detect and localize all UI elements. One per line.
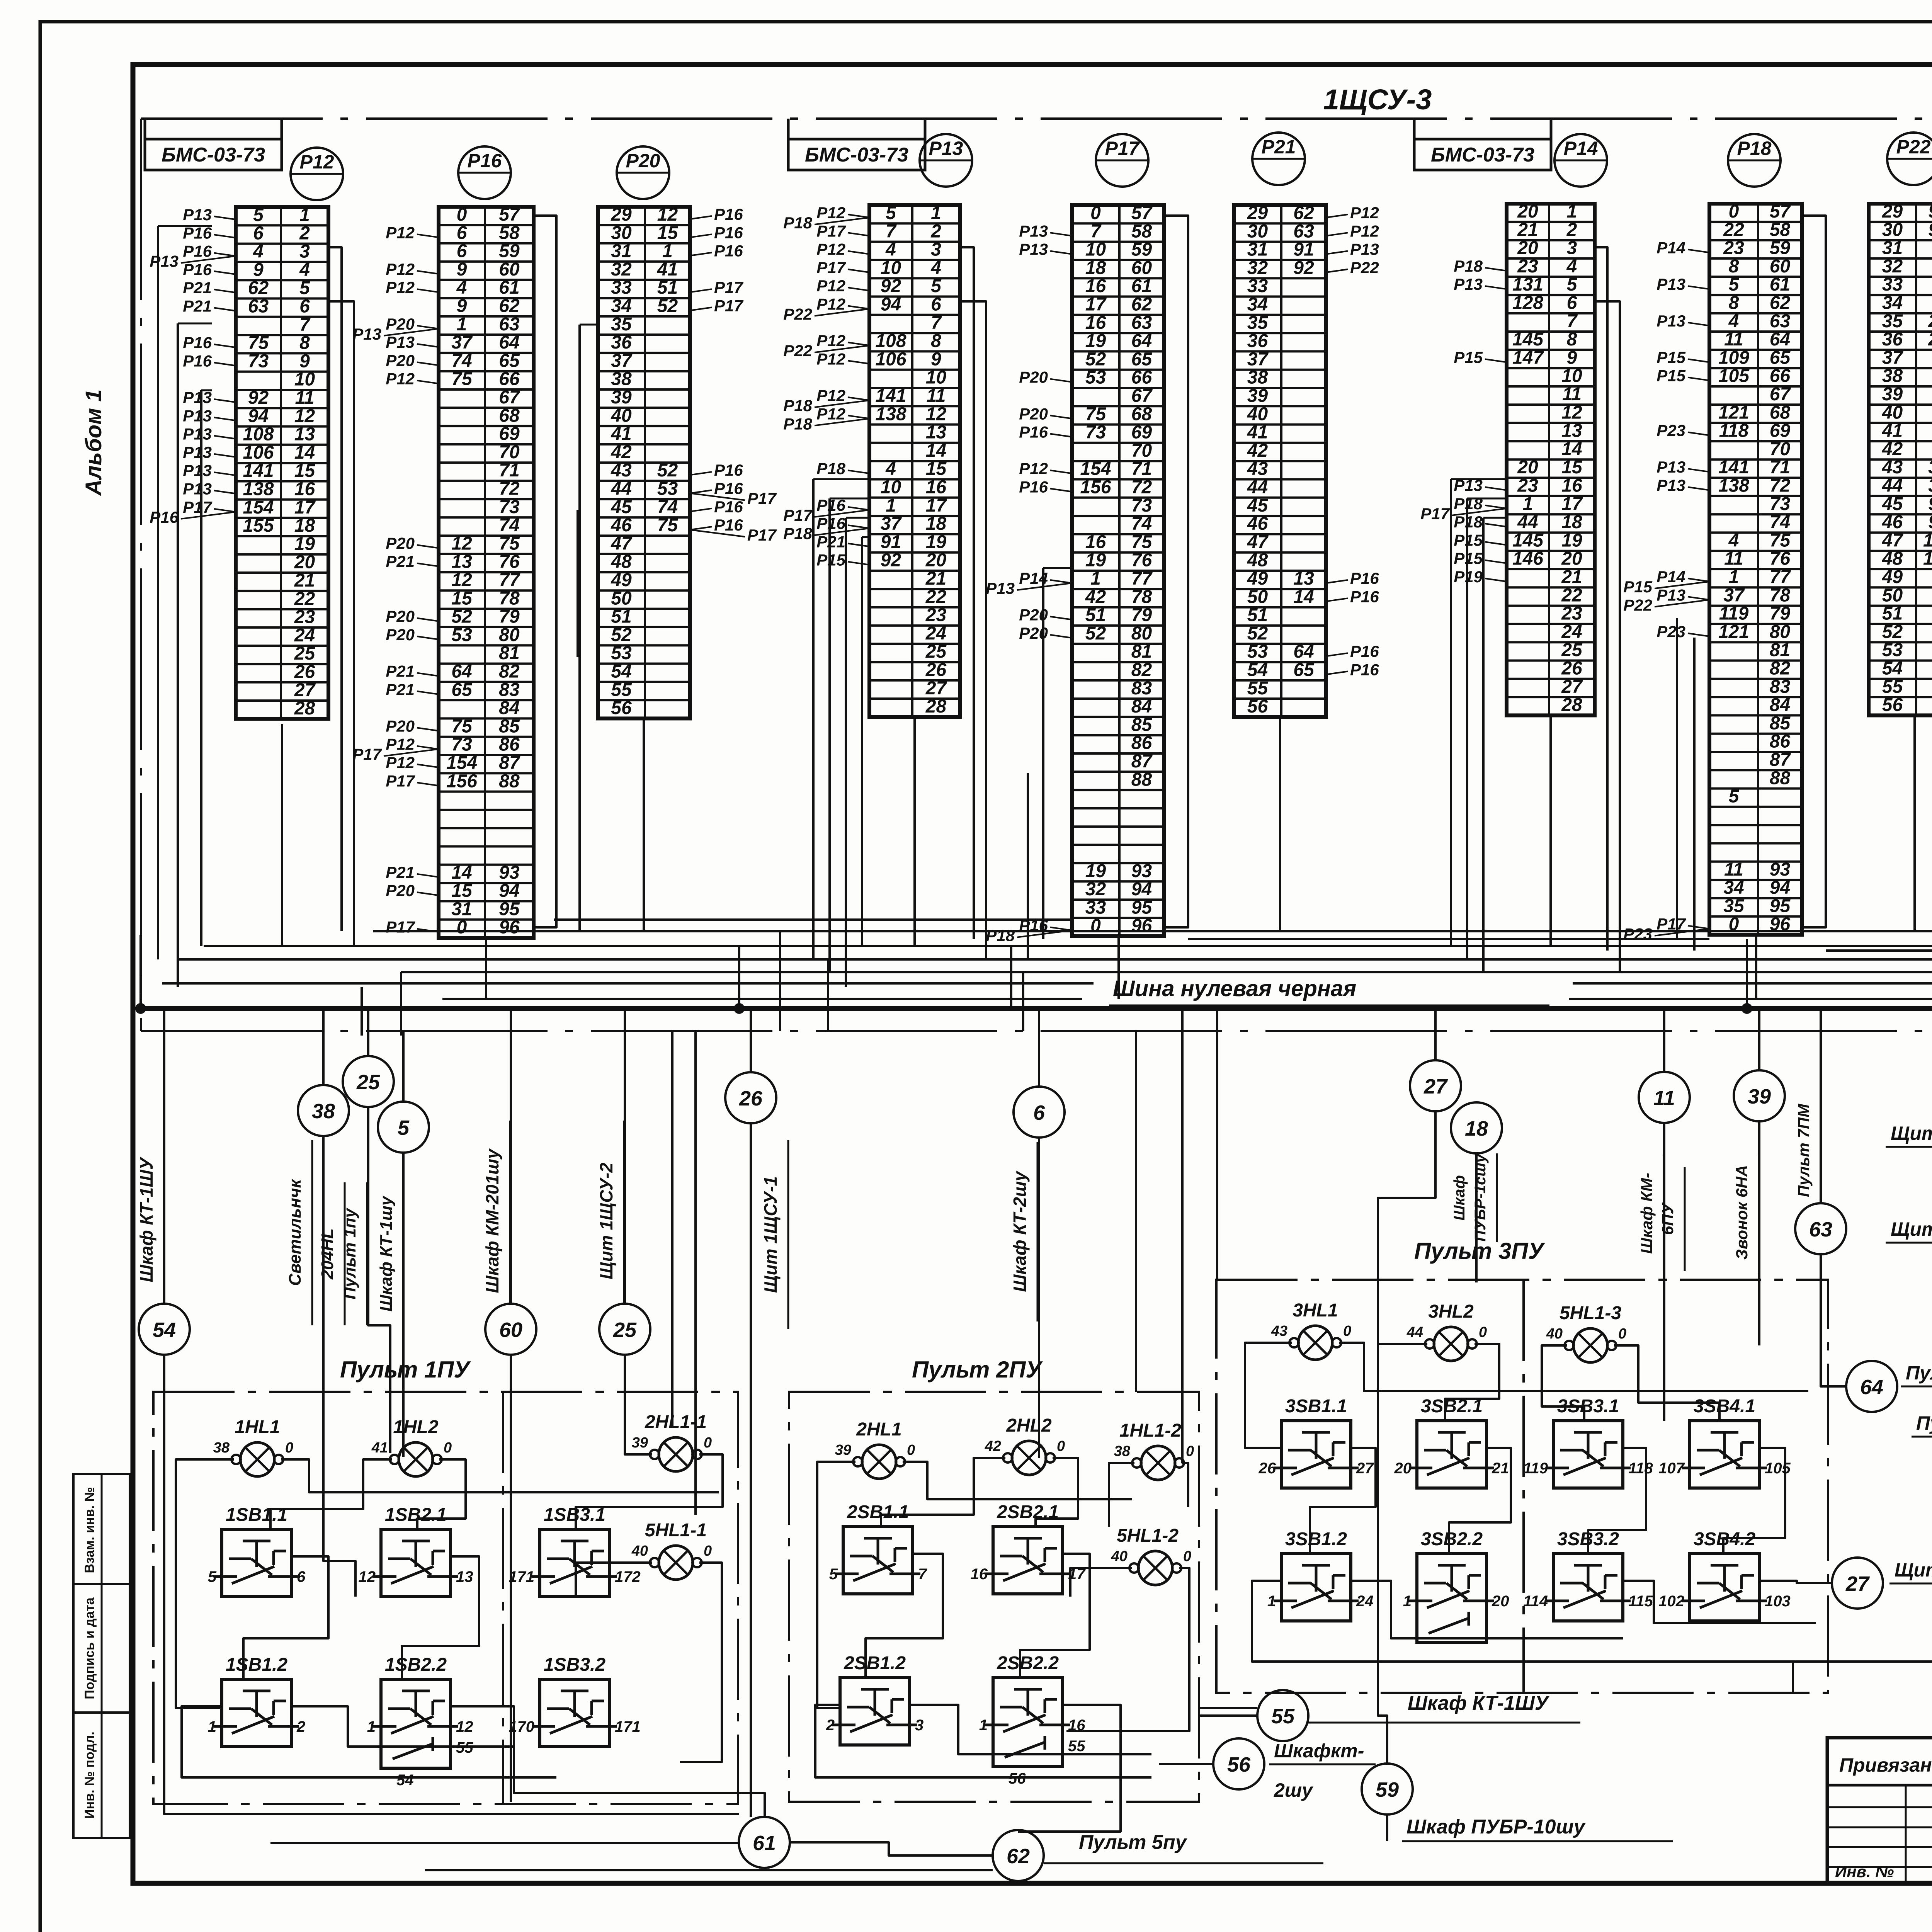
svg-text:3: 3 [1567,238,1577,259]
svg-text:18: 18 [926,514,947,534]
svg-text:54: 54 [396,1772,414,1789]
svg-text:29: 29 [1247,203,1268,223]
svg-text:1ЩСУ-3: 1ЩСУ-3 [1323,83,1432,116]
svg-text:2: 2 [930,221,941,241]
svg-text:7: 7 [931,313,942,333]
svg-text:P17: P17 [816,259,846,277]
svg-text:2: 2 [826,1717,835,1734]
svg-text:64: 64 [1770,329,1790,350]
svg-text:25: 25 [356,1071,380,1094]
svg-text:114: 114 [1523,1593,1548,1610]
svg-text:58: 58 [1770,219,1791,240]
svg-text:70: 70 [1131,440,1152,461]
wire [182,1706,556,1777]
wire [828,498,831,972]
svg-text:6: 6 [457,241,467,262]
wire [1746,939,1748,1009]
wire [830,498,869,500]
svg-text:22: 22 [1723,219,1744,240]
svg-text:6: 6 [1033,1101,1045,1124]
svg-text:66: 66 [1131,367,1152,388]
wire [1802,216,1826,927]
svg-text:94: 94 [248,406,269,426]
svg-text:24: 24 [1561,622,1582,642]
wire [1339,1343,1808,1391]
svg-text:39: 39 [1928,476,1932,496]
wire [417,1459,466,1529]
svg-text:1: 1 [367,1718,376,1735]
svg-text:1SB1.1: 1SB1.1 [226,1505,287,1525]
label Шкаф КМ- [1638,1155,1664,1271]
wire [1378,1343,1427,1345]
svg-text:26: 26 [739,1087,763,1110]
svg-text:63: 63 [248,296,269,317]
svg-text:0: 0 [1729,201,1739,222]
wire [361,987,363,1036]
svg-text:88: 88 [499,771,520,791]
svg-text:26: 26 [294,662,315,682]
svg-text:P12: P12 [816,295,845,313]
wire [960,247,974,939]
svg-text:18: 18 [1465,1117,1488,1140]
left column box Инв. № подл. [73,1713,130,1838]
svg-text:93: 93 [1928,219,1932,240]
svg-text:11: 11 [1724,549,1743,569]
svg-text:79: 79 [1131,605,1152,626]
svg-text:39: 39 [632,1435,648,1451]
svg-text:P15: P15 [1656,348,1685,366]
svg-text:16: 16 [1085,313,1106,333]
svg-text:34: 34 [1247,294,1268,315]
svg-text:P23: P23 [1656,422,1685,440]
svg-text:75: 75 [1085,404,1107,424]
connector symbol P16 [458,146,511,199]
svg-text:27: 27 [1561,677,1583,697]
svg-text:12: 12 [451,533,472,554]
svg-text:54: 54 [611,662,631,682]
svg-text:15: 15 [657,223,679,243]
svg-text:P12: P12 [300,151,334,173]
svg-text:P17: P17 [816,222,846,240]
svg-text:20: 20 [925,550,947,571]
svg-text:22: 22 [1561,585,1582,605]
svg-text:46: 46 [611,515,632,536]
svg-text:11: 11 [1653,1087,1675,1110]
button 3SB2.1 [1394,1396,1509,1488]
svg-text:20: 20 [294,552,315,573]
wire [1451,478,1507,480]
svg-text:1HL1: 1HL1 [235,1417,280,1437]
svg-text:7: 7 [918,1566,927,1583]
svg-text:2: 2 [1566,219,1577,240]
svg-text:79: 79 [1770,604,1791,624]
svg-text:64: 64 [1860,1376,1883,1399]
svg-text:1: 1 [1523,494,1533,514]
svg-text:P16: P16 [1019,478,1048,496]
svg-text:25: 25 [1928,311,1932,332]
svg-text:1HL1-2: 1HL1-2 [1119,1420,1181,1441]
svg-text:59: 59 [499,241,520,262]
svg-text:11: 11 [1724,329,1743,350]
wire [373,930,1932,932]
svg-text:P16: P16 [183,260,212,279]
svg-text:21: 21 [1492,1460,1509,1477]
svg-text:P13: P13 [183,461,212,480]
svg-text:ПУБР-1сшу: ПУБР-1сшу [1472,1153,1489,1242]
svg-text:63: 63 [1131,313,1152,333]
svg-text:138: 138 [875,404,906,424]
svg-text:32: 32 [1882,256,1903,277]
wire [162,982,1094,985]
svg-text:68: 68 [1131,404,1152,424]
svg-text:1SB2.2: 1SB2.2 [385,1655,447,1675]
svg-text:Щит 1ЩСУ-2: Щит 1ЩСУ-2 [1891,1218,1932,1240]
svg-text:31: 31 [1247,240,1268,260]
node 27 [1410,1060,1461,1111]
svg-text:7: 7 [299,315,311,335]
cabinet label 1ЩСУ-3 [1323,83,1432,116]
svg-text:83: 83 [1770,677,1791,697]
wire [680,1563,722,1762]
svg-text:P15: P15 [1656,367,1685,385]
label 204НL [318,1182,345,1325]
svg-text:74: 74 [1131,514,1152,534]
svg-text:141: 141 [875,386,906,406]
svg-text:P20: P20 [386,607,415,626]
svg-text:27: 27 [1845,1572,1870,1595]
svg-text:P13: P13 [1656,458,1685,476]
svg-text:54: 54 [1882,658,1903,679]
wire [270,1459,392,1529]
svg-text:P21: P21 [386,680,415,699]
svg-text:20: 20 [1517,201,1538,222]
svg-text:12: 12 [926,404,947,424]
svg-text:106: 106 [875,349,906,369]
svg-text:P16: P16 [1350,587,1379,605]
svg-text:4: 4 [930,258,941,278]
svg-text:Светильнчк: Светильнчк [286,1178,304,1286]
svg-text:16: 16 [926,477,947,498]
terminal block housing label БМС-03-73 [145,119,282,170]
svg-text:73: 73 [499,497,520,517]
wire [402,1556,479,1679]
svg-text:8: 8 [1567,329,1577,350]
svg-text:Пульт 5пу: Пульт 5пу [1079,1831,1188,1854]
wire [580,324,598,326]
svg-text:41: 41 [371,1440,388,1456]
svg-text:3: 3 [931,240,941,260]
svg-text:1: 1 [1090,568,1101,589]
svg-text:P21: P21 [386,553,415,571]
svg-text:61: 61 [1131,276,1152,296]
wire [910,1705,1151,1754]
svg-text:109: 109 [1718,347,1749,368]
svg-text:9: 9 [299,351,310,371]
svg-text:96: 96 [1131,916,1152,936]
svg-text:1HL2: 1HL2 [393,1417,439,1437]
svg-text:36: 36 [611,332,632,353]
svg-text:2шу: 2шу [1274,1779,1313,1801]
svg-text:42: 42 [611,442,632,463]
wire [1445,1344,1499,1421]
svg-text:83: 83 [1131,678,1152,699]
svg-text:P12: P12 [1350,204,1379,222]
svg-text:62: 62 [499,296,520,316]
wire [1310,1448,1376,1554]
wire [1020,1554,1090,1678]
svg-text:Пульт 1пу: Пульт 1пу [340,1207,359,1299]
svg-text:Щит 1ЩСУ-2: Щит 1ЩСУ-2 [1895,1559,1932,1581]
svg-text:P18: P18 [783,396,812,415]
svg-text:0: 0 [704,1543,712,1559]
wire [176,1459,234,1708]
wire [1351,1581,1623,1638]
svg-text:92: 92 [248,388,269,408]
svg-text:P20: P20 [1019,405,1048,423]
wire [1378,1111,1435,1764]
wire [1466,498,1468,959]
svg-text:P13: P13 [183,443,212,461]
wire [1027,773,1029,959]
svg-text:94: 94 [499,881,519,901]
wire [1614,1345,1719,1421]
svg-text:26: 26 [925,660,947,680]
svg-text:73: 73 [248,351,269,371]
svg-text:35: 35 [611,314,632,335]
svg-text:7: 7 [886,221,897,241]
svg-text:P12: P12 [816,240,845,259]
svg-text:15: 15 [926,459,947,479]
svg-text:34: 34 [611,296,631,316]
svg-text:13: 13 [1561,421,1582,441]
wire [367,1009,369,1056]
svg-text:60: 60 [499,1318,522,1342]
svg-text:1: 1 [1403,1593,1412,1610]
wire [243,1556,328,1679]
wire [1467,498,1507,500]
svg-text:0: 0 [1090,916,1101,936]
svg-text:61: 61 [1770,274,1790,295]
wire [625,1355,649,1454]
wire [1758,1121,1760,1345]
svg-text:93: 93 [1131,861,1152,881]
svg-text:2: 2 [296,1718,305,1735]
svg-text:82: 82 [1131,660,1152,680]
svg-text:P22: P22 [1896,136,1931,158]
svg-text:92: 92 [1293,258,1314,278]
wire [1820,1009,1822,1203]
label Щит 1ЩСУ-1 [1886,1122,1932,1147]
svg-text:P21: P21 [386,662,415,680]
svg-text:156: 156 [446,771,477,791]
wire [291,1706,514,1747]
wire [402,1031,405,1102]
svg-text:78: 78 [1770,585,1791,605]
svg-text:102: 102 [1658,1593,1684,1610]
svg-text:14: 14 [1561,439,1582,459]
svg-text:65: 65 [451,680,473,700]
svg-text:P20: P20 [386,315,415,333]
svg-text:4: 4 [1728,530,1739,551]
svg-text:33: 33 [611,277,632,298]
svg-text:P16: P16 [816,514,845,532]
svg-text:63: 63 [1770,311,1791,332]
svg-text:28: 28 [925,696,947,717]
wire [201,389,212,391]
svg-text:75: 75 [1770,530,1791,551]
wire [1792,1662,1794,1693]
svg-text:Подпись и дата: Подпись и дата [82,1597,97,1699]
svg-text:P13: P13 [1019,240,1048,259]
svg-text:21: 21 [925,568,946,589]
svg-text:23: 23 [925,605,947,626]
svg-text:38: 38 [1114,1443,1131,1459]
svg-text:204НL: 204НL [318,1228,337,1280]
svg-text:80: 80 [1770,622,1791,642]
terminal block P13 (terminals 1-28) [783,203,960,717]
svg-text:1SB1.2: 1SB1.2 [226,1655,287,1675]
svg-text:28: 28 [1561,695,1582,715]
svg-text:P17: P17 [1420,505,1450,523]
wire [1595,247,1607,951]
svg-text:0: 0 [285,1440,293,1456]
svg-text:3HL2: 3HL2 [1428,1301,1474,1322]
svg-text:0: 0 [907,1442,915,1458]
svg-text:84: 84 [1131,696,1152,717]
svg-text:P18: P18 [816,459,845,478]
svg-text:94: 94 [1928,512,1932,532]
svg-text:40: 40 [1882,402,1903,423]
button 3SB3.2 [1523,1529,1653,1621]
svg-text:3HL1: 3HL1 [1293,1300,1338,1321]
wire [1216,1009,1218,1280]
wire [204,945,1932,947]
svg-text:P13: P13 [986,579,1015,597]
svg-text:58: 58 [1131,221,1152,241]
svg-text:44: 44 [611,479,631,499]
wire [510,1355,512,1802]
label Пульт 5пу [1044,1831,1323,1863]
wire [861,537,863,946]
svg-text:41: 41 [657,259,678,280]
svg-text:94: 94 [1131,879,1152,900]
svg-text:P20: P20 [386,351,415,369]
svg-text:Пульт 2ПУ: Пульт 2ПУ [912,1357,1043,1383]
svg-text:P16: P16 [468,150,502,172]
svg-text:10: 10 [1085,240,1106,260]
svg-text:6: 6 [1567,293,1577,313]
svg-text:67: 67 [1770,384,1791,405]
svg-text:37: 37 [1723,585,1745,605]
svg-text:P15: P15 [1454,348,1483,366]
svg-text:19: 19 [926,532,947,552]
svg-text:84: 84 [499,698,519,718]
svg-text:52: 52 [657,460,678,481]
wire [157,226,159,959]
wire [671,1031,673,1428]
svg-text:146: 146 [1512,549,1543,569]
svg-text:0: 0 [444,1440,452,1456]
svg-text:63: 63 [1809,1218,1832,1241]
svg-text:74: 74 [451,350,472,371]
svg-text:5: 5 [931,276,942,296]
svg-text:13: 13 [1293,568,1314,589]
svg-text:51: 51 [1085,605,1106,626]
svg-text:P13: P13 [929,138,963,159]
svg-text:38: 38 [1247,367,1268,388]
wire [1038,1138,1040,1458]
wire [903,1462,1132,1499]
wire [1623,1581,1816,1623]
svg-text:55: 55 [1271,1705,1295,1728]
svg-text:18: 18 [1561,512,1582,532]
svg-text:15: 15 [1561,457,1583,478]
wire [1199,1707,1257,1709]
svg-text:77: 77 [1131,568,1153,589]
wire [1758,1009,1760,1070]
svg-text:121: 121 [1718,402,1749,423]
svg-text:42: 42 [985,1438,1001,1454]
svg-text:P16: P16 [714,242,743,260]
wire [813,478,869,480]
svg-text:40: 40 [1111,1548,1128,1565]
svg-text:52: 52 [1882,622,1903,642]
wire [960,301,986,959]
svg-text:P21: P21 [386,863,415,881]
svg-text:106: 106 [243,442,274,463]
svg-text:P17: P17 [183,498,212,516]
svg-text:P16: P16 [1350,661,1379,679]
svg-text:10: 10 [881,477,901,498]
svg-text:61: 61 [753,1832,776,1855]
svg-text:P13: P13 [352,325,381,343]
svg-text:Инв. №: Инв. № [1835,1862,1894,1881]
svg-text:1: 1 [979,1717,988,1734]
svg-text:3SB1.2: 3SB1.2 [1285,1529,1347,1549]
svg-text:31: 31 [611,241,631,262]
svg-text:P12: P12 [816,204,845,222]
wire [323,1561,355,1597]
svg-text:P20: P20 [386,717,415,735]
svg-text:51: 51 [1882,604,1903,624]
svg-text:76: 76 [1131,550,1152,571]
svg-text:38: 38 [213,1440,230,1456]
wire [1022,972,1024,1031]
wire [1755,936,1757,999]
svg-text:Пульт 1ПУ: Пульт 1ПУ [340,1357,471,1383]
wire [1542,1345,1584,1421]
svg-text:54: 54 [1247,660,1268,680]
svg-text:P16: P16 [183,352,212,370]
svg-text:33: 33 [1882,274,1903,295]
svg-text:52: 52 [611,625,632,645]
svg-text:62: 62 [1131,294,1152,315]
wire [866,1554,943,1678]
bus junction [734,1003,745,1014]
svg-text:22: 22 [925,587,947,607]
wire [163,1009,165,1304]
svg-text:P16: P16 [1350,642,1379,660]
svg-text:14: 14 [451,862,472,883]
svg-text:1: 1 [886,495,896,516]
wire [1569,998,1932,1000]
wire [177,323,179,987]
svg-text:86: 86 [499,735,520,755]
svg-text:P18: P18 [986,927,1015,945]
wire [1181,1009,1184,1463]
svg-text:32: 32 [1085,879,1106,900]
wire [1693,638,1696,951]
